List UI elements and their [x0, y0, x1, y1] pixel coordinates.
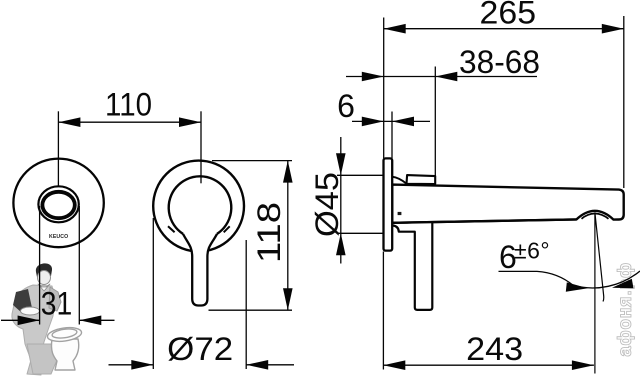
watermark plumber head	[36, 263, 52, 277]
dimension 38-68	[346, 67, 537, 177]
escutcheon front view outer circle	[13, 159, 103, 248]
escutcheon sleeve ring outer	[38, 186, 78, 222]
lever handle inner circle	[169, 176, 232, 234]
angle tilted line	[595, 213, 604, 302]
angle arc arrow left	[566, 282, 588, 291]
svg-text:31: 31	[41, 286, 73, 322]
angle reference vertical line	[594, 213, 596, 374]
angle dimension arc with leader	[499, 271, 640, 288]
svg-text:265: 265	[480, 0, 537, 30]
svg-text:±6°: ±6°	[514, 238, 550, 264]
dimension 265	[384, 16, 624, 188]
spout bottom edge restroke	[392, 219, 576, 222]
dimension 6 wall plate	[352, 112, 430, 159]
wall plate side view	[384, 158, 393, 250]
dimension diameter 72	[109, 218, 295, 369]
svg-text:6: 6	[337, 88, 355, 124]
small marking on spout root	[398, 212, 402, 215]
dimension 118	[209, 161, 293, 311]
lever handle stem	[183, 234, 217, 306]
handle ring tick lower-left	[168, 226, 175, 232]
mounting slide block on spout	[407, 175, 436, 184]
spout side view body	[392, 185, 624, 223]
watermark plate in hand	[21, 307, 40, 315]
dimension 110	[58, 111, 201, 186]
svg-text:Ø45: Ø45	[309, 172, 345, 237]
fillet plate to spout top	[392, 177, 406, 184]
svg-text:38-68: 38-68	[459, 44, 540, 80]
lever handle front view outer circle	[153, 161, 244, 252]
lever side view	[392, 222, 432, 310]
svg-text:KEUCO: KEUCO	[49, 234, 68, 240]
dimension 31	[1, 206, 115, 325]
watermark plumber figure	[12, 263, 61, 375]
svg-text:118: 118	[251, 202, 287, 263]
dimension 243	[383, 252, 594, 370]
svg-text:243: 243	[466, 331, 523, 367]
angle arc arrow right	[612, 279, 634, 288]
dimension diameter 45	[337, 137, 383, 264]
handle ring tick lower-right	[224, 226, 230, 232]
svg-text:110: 110	[105, 87, 152, 123]
watermark toilet	[47, 326, 83, 370]
svg-text:афоня.рф: афоня.рф	[615, 262, 635, 357]
escutcheon sleeve ring inner	[42, 192, 74, 218]
spout aerator inner arc	[582, 214, 609, 219]
svg-text:Ø72: Ø72	[167, 331, 233, 367]
